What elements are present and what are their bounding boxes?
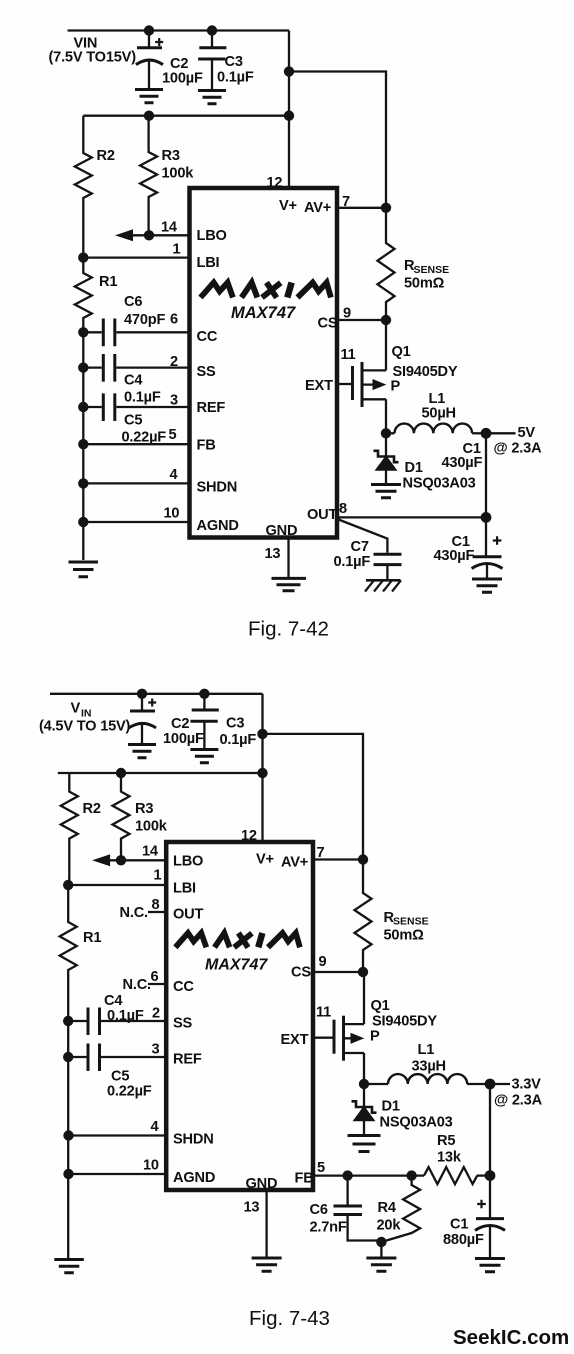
IC U1 MAX747 fig1 box xyxy=(190,188,338,538)
svg-text:AGND: AGND xyxy=(173,1170,215,1186)
svg-text:SI9405DY: SI9405DY xyxy=(372,1014,437,1030)
ground: chassis below C7 xyxy=(365,580,401,591)
node: switch node and output dots fig1 xyxy=(381,428,492,523)
pin 7 AV+ wire fig2 xyxy=(281,845,363,871)
capacitor C6 (470pF) on CC pin 6 fig1 xyxy=(83,294,218,346)
svg-text:0.1µF: 0.1µF xyxy=(124,390,161,406)
svg-text:4: 4 xyxy=(151,1119,160,1135)
svg-text:SHDN: SHDN xyxy=(173,1132,214,1148)
svg-text:13: 13 xyxy=(265,546,281,562)
svg-text:10: 10 xyxy=(143,1158,159,1174)
svg-text:C2: C2 xyxy=(171,716,189,732)
svg-text:LBI: LBI xyxy=(173,881,196,897)
ground: below C1 fig2 xyxy=(475,1259,505,1272)
capacitor C7 (0.1uF) fig1 xyxy=(334,520,402,580)
svg-text:R1: R1 xyxy=(83,930,101,946)
label VIN fig2 xyxy=(39,701,131,735)
ground: below C2 xyxy=(135,90,163,103)
svg-text:430µF: 430µF xyxy=(442,455,483,471)
svg-text:1: 1 xyxy=(173,242,181,258)
wire: junction to ground stub fig2 xyxy=(380,1242,382,1257)
svg-text:C7: C7 xyxy=(351,539,369,555)
svg-text:13: 13 xyxy=(244,1200,260,1216)
svg-text:7: 7 xyxy=(342,194,350,210)
svg-text:1: 1 xyxy=(154,868,162,884)
svg-text:NSQ03A03: NSQ03A03 xyxy=(380,1115,453,1131)
svg-text:8: 8 xyxy=(339,501,347,517)
svg-text:9: 9 xyxy=(343,306,351,322)
svg-text:2.7nF: 2.7nF xyxy=(310,1220,347,1236)
capacitor C3 (0.1uF) fig1 xyxy=(198,31,254,90)
svg-text:C6: C6 xyxy=(310,1202,328,1218)
svg-text:OUT: OUT xyxy=(307,507,337,523)
pin 1 LBI wire fig1 xyxy=(83,242,219,272)
node: left column junction dots fig2 xyxy=(63,855,126,1179)
svg-text:14: 14 xyxy=(142,844,159,860)
resistor RSENSE (50mohm) fig1 xyxy=(378,208,450,320)
svg-text:CC: CC xyxy=(197,329,218,345)
label MAXIM logo fig2 xyxy=(175,933,300,948)
pin 11 EXT wire fig1 xyxy=(305,347,356,394)
svg-text:R2: R2 xyxy=(83,801,101,817)
svg-text:@ 2.3A: @ 2.3A xyxy=(494,1093,543,1109)
wire: Fig.7-42 VIN top rail xyxy=(68,29,290,31)
svg-text:EXT: EXT xyxy=(281,1032,309,1048)
resistor R5 (13k) fig2 xyxy=(424,1133,490,1184)
pin 12 V+ label fig1 xyxy=(267,175,297,214)
ground: below GND pin 13 fig1 xyxy=(272,578,307,590)
pin 4 SHDN wire fig1 xyxy=(83,467,237,496)
pin 5 FB wire fig1 xyxy=(83,427,215,454)
svg-text:V+: V+ xyxy=(279,198,297,214)
wire: second rail to R2/R3 xyxy=(83,115,289,117)
resistor R2 fig1 xyxy=(75,116,115,258)
node: dots AV+/CS fig1 xyxy=(381,203,391,326)
ground: below C2 fig2 xyxy=(128,745,156,758)
svg-text:C1: C1 xyxy=(450,1217,468,1233)
ground: below D1 fig2 xyxy=(348,1136,381,1152)
ground: below D1 xyxy=(371,485,401,498)
node: junction dots top fig2 xyxy=(116,689,268,779)
transistor Q1 SI9405DY (P-FET) fig2 xyxy=(334,972,437,1084)
svg-text:13k: 13k xyxy=(437,1150,462,1166)
svg-text:100µF: 100µF xyxy=(162,71,203,87)
svg-text:9: 9 xyxy=(319,954,327,970)
svg-text:REF: REF xyxy=(173,1052,202,1068)
svg-text:10: 10 xyxy=(164,506,180,522)
svg-text:REF: REF xyxy=(197,400,226,416)
svg-text:Q1: Q1 xyxy=(392,344,411,360)
resistor R4 (20k) fig2 xyxy=(377,1176,421,1242)
svg-text:N.C.: N.C. xyxy=(123,977,152,993)
svg-text:LBO: LBO xyxy=(173,854,203,870)
ground: below C6/R4 fig2 xyxy=(366,1258,396,1271)
ground: below C1 fig1 xyxy=(472,579,502,592)
svg-text:C4: C4 xyxy=(104,993,123,1009)
svg-text:12: 12 xyxy=(241,828,257,844)
label Fig. 7-42 caption xyxy=(248,618,329,641)
svg-text:R3: R3 xyxy=(162,148,180,164)
capacitor C1 430uF (output) fig1 xyxy=(434,517,503,578)
svg-text:5: 5 xyxy=(169,427,177,443)
svg-text:Fig. 7-42: Fig. 7-42 xyxy=(248,618,329,641)
node: FB line junction dots fig2 xyxy=(342,1170,416,1180)
pin 13 GND wire fig2 xyxy=(244,1176,278,1257)
svg-text:11: 11 xyxy=(316,1005,331,1021)
resistor R3 (100k) fig1 xyxy=(140,116,194,236)
capacitor C1 (880uF) fig2 xyxy=(443,1176,505,1258)
node: junction dots top rails fig1 xyxy=(144,25,294,121)
svg-text:50µH: 50µH xyxy=(422,406,456,422)
svg-text:R4: R4 xyxy=(378,1200,397,1216)
svg-text:GND: GND xyxy=(246,1176,278,1192)
svg-text:GND: GND xyxy=(266,523,298,539)
svg-text:SS: SS xyxy=(173,1016,193,1032)
pin 6 CC (N.C.) stub fig2 xyxy=(123,969,195,995)
capacitor C6 (2.7nF) fig2 xyxy=(310,1176,382,1241)
svg-text:V+: V+ xyxy=(256,852,274,868)
svg-text:2: 2 xyxy=(152,1006,160,1022)
svg-text:FB: FB xyxy=(197,438,216,454)
svg-text:50mΩ: 50mΩ xyxy=(384,928,425,944)
svg-text:4: 4 xyxy=(170,467,179,483)
pin 13 GND wire fig1 xyxy=(265,523,298,577)
svg-text:8: 8 xyxy=(152,897,160,913)
svg-text:11: 11 xyxy=(341,347,356,363)
svg-text:LBI: LBI xyxy=(197,255,220,271)
svg-text:P: P xyxy=(391,379,401,395)
svg-text:D1: D1 xyxy=(382,1099,400,1115)
svg-text:CS: CS xyxy=(318,316,338,332)
svg-text:0.22µF: 0.22µF xyxy=(107,1084,152,1100)
svg-text:N.C.: N.C. xyxy=(120,905,149,921)
resistor R1 fig1 xyxy=(75,258,118,560)
diode D1 NSQ03A03 fig1 xyxy=(374,433,476,491)
IC U2 MAX747 fig2 box xyxy=(166,842,313,1190)
svg-text:6: 6 xyxy=(151,969,159,985)
svg-text:C3: C3 xyxy=(225,54,243,70)
svg-text:AV+: AV+ xyxy=(304,200,331,216)
svg-text:0.1µF: 0.1µF xyxy=(217,70,254,86)
ground: left column fig2 xyxy=(54,1260,84,1273)
transistor Q1 SI9405DY (P-FET) fig1 xyxy=(353,320,458,433)
svg-text:R2: R2 xyxy=(97,148,115,164)
svg-text:@ 2.3A: @ 2.3A xyxy=(494,441,543,457)
svg-text:50mΩ: 50mΩ xyxy=(404,276,445,292)
wire: output 3.3V stub fig2 xyxy=(490,1077,543,1109)
wire: branch from rail to AV+ column fig2 xyxy=(263,734,364,860)
pin 4 SHDN wire fig2 xyxy=(69,1119,214,1148)
svg-text:FB: FB xyxy=(295,1171,314,1187)
label MAXIM logo fig1 xyxy=(201,283,331,298)
svg-text:OUT: OUT xyxy=(173,907,203,923)
node: switch node and output dots fig2 xyxy=(359,1079,496,1181)
svg-text:R3: R3 xyxy=(135,801,153,817)
svg-text:430µF: 430µF xyxy=(434,548,475,564)
pin 10 AGND wire fig1 xyxy=(83,506,238,535)
capacitor C2 (100uF) fig2 xyxy=(129,694,204,747)
svg-text:5: 5 xyxy=(317,1160,325,1176)
svg-text:V: V xyxy=(71,701,81,717)
ground: below C3 xyxy=(198,91,226,104)
svg-text:100k: 100k xyxy=(135,819,168,835)
pin 10 AGND wire fig2 xyxy=(69,1158,216,1187)
ground: left column fig1 xyxy=(69,562,99,577)
label C1 430uF (upper) fig1 xyxy=(442,441,483,471)
resistor R1 fig2 xyxy=(60,885,102,1258)
label MAX747 fig2 xyxy=(205,957,268,974)
svg-text:2: 2 xyxy=(170,354,178,370)
resistor R2 fig2 xyxy=(61,773,101,885)
svg-text:C5: C5 xyxy=(124,413,142,429)
svg-text:C4: C4 xyxy=(124,373,143,389)
svg-text:SeekIC.com: SeekIC.com xyxy=(453,1326,569,1349)
svg-text:NSQ03A03: NSQ03A03 xyxy=(403,476,476,492)
svg-text:3.3V: 3.3V xyxy=(512,1077,542,1093)
svg-text:5V: 5V xyxy=(518,425,536,441)
capacitor C2 (100uF) fig1 xyxy=(136,31,203,89)
ground: below GND pin 13 fig2 xyxy=(252,1258,282,1271)
svg-text:AV+: AV+ xyxy=(281,855,308,871)
wire: branch from rail to AV+ column xyxy=(289,72,386,208)
wire: top rail drop to V+ pin 12 xyxy=(288,31,290,189)
svg-text:CS: CS xyxy=(291,965,311,981)
svg-text:SS: SS xyxy=(197,364,217,380)
ground: below C3 fig2 xyxy=(190,750,218,763)
capacitor C5 (0.22uF) on REF pin 3 fig1 xyxy=(83,393,225,446)
svg-text:SHDN: SHDN xyxy=(197,480,238,496)
wire: output 5V stub fig1 xyxy=(486,425,542,457)
svg-text:0.1µF: 0.1µF xyxy=(334,554,371,570)
svg-text:6: 6 xyxy=(170,312,178,328)
svg-text:(7.5V TO15V): (7.5V TO15V) xyxy=(49,50,137,66)
label MAX747 fig1 xyxy=(231,304,296,322)
svg-text:33µH: 33µH xyxy=(412,1059,446,1075)
svg-text:MAX747: MAX747 xyxy=(205,957,268,974)
svg-text:L1: L1 xyxy=(418,1042,435,1058)
wire: rail drop to V+ pin 12 fig2 xyxy=(261,694,263,842)
label SeekIC.com watermark xyxy=(453,1326,569,1349)
capacitor C4 (0.1uF) on SS pin 2 fig1 xyxy=(83,354,216,406)
svg-text:12: 12 xyxy=(267,175,283,191)
svg-text:CC: CC xyxy=(173,979,194,995)
pin 14 LBO wire + arrow fig1 xyxy=(117,220,227,245)
resistor R3 (100k) fig2 xyxy=(113,773,168,860)
svg-text:AGND: AGND xyxy=(197,518,239,534)
pin 9 CS wire fig2 xyxy=(291,954,363,981)
inductor L1 (50uH) fig1 xyxy=(386,391,486,433)
svg-text:D1: D1 xyxy=(405,460,423,476)
label VIN fig1 xyxy=(49,36,137,66)
svg-text:20k: 20k xyxy=(377,1218,402,1234)
svg-text:SENSE: SENSE xyxy=(414,264,450,276)
pin 8 OUT (N.C.) stub fig2 xyxy=(120,897,204,923)
svg-text:SI9405DY: SI9405DY xyxy=(393,364,458,380)
svg-text:C6: C6 xyxy=(124,294,142,310)
svg-text:C5: C5 xyxy=(111,1069,129,1085)
svg-text:880µF: 880µF xyxy=(443,1232,484,1248)
resistor RSENSE (50mohm) fig2 xyxy=(355,860,429,973)
label Fig. 7-43 caption xyxy=(249,1307,330,1330)
wire: output node down to FB line fig2 xyxy=(489,1084,491,1176)
svg-text:P: P xyxy=(370,1029,380,1045)
svg-text:MAX747: MAX747 xyxy=(231,304,296,322)
inductor L1 (33uH) fig2 xyxy=(364,1042,490,1084)
pin 14 LBO wire + arrow fig2 xyxy=(94,844,204,870)
wire: Fig.7-43 VIN top rail xyxy=(50,693,263,695)
svg-text:SENSE: SENSE xyxy=(393,916,429,928)
node: C6/R4 ground junction dot fig2 xyxy=(376,1237,386,1247)
pin 8 OUT wire fig1 xyxy=(307,501,486,523)
pin 12 V+ label fig2 xyxy=(241,828,274,868)
svg-text:100µF: 100µF xyxy=(163,731,204,747)
diode D1 NSQ03A03 fig2 xyxy=(352,1084,453,1134)
svg-text:R1: R1 xyxy=(99,274,117,290)
pin 5 FB wire fig2 xyxy=(295,1160,425,1187)
node: left column junction dots fig1 xyxy=(78,230,154,527)
svg-text:(4.5V TO 15V): (4.5V TO 15V) xyxy=(39,719,131,735)
svg-text:Fig. 7-43: Fig. 7-43 xyxy=(249,1307,330,1330)
svg-text:EXT: EXT xyxy=(305,378,333,394)
svg-text:470pF: 470pF xyxy=(124,312,165,328)
capacitor C3 (0.1uF) fig2 xyxy=(191,694,257,749)
svg-text:7: 7 xyxy=(317,845,325,861)
svg-text:C3: C3 xyxy=(226,716,244,732)
svg-text:100k: 100k xyxy=(162,166,195,182)
svg-text:R5: R5 xyxy=(437,1133,455,1149)
svg-text:Q1: Q1 xyxy=(371,998,390,1014)
svg-text:0.1µF: 0.1µF xyxy=(107,1008,144,1024)
node: dots AV+/CS fig2 xyxy=(358,854,368,977)
capacitor C4 (0.1uF) on SS pin 2 fig2 xyxy=(68,993,192,1035)
wire: second rail fig2 xyxy=(58,772,263,774)
svg-text:3: 3 xyxy=(170,393,178,409)
pin 9 CS wire fig1 xyxy=(318,306,387,332)
pin 11 EXT wire fig2 xyxy=(281,1005,335,1049)
svg-text:3: 3 xyxy=(152,1042,160,1058)
pin 1 LBI wire fig2 xyxy=(68,868,196,897)
svg-text:0.1µF: 0.1µF xyxy=(220,732,257,748)
wire: output node down to OUT line fig1 xyxy=(485,433,487,517)
svg-text:LBO: LBO xyxy=(197,228,227,244)
svg-text:14: 14 xyxy=(161,220,178,236)
capacitor C5 (0.22uF) on REF pin 3 fig2 xyxy=(68,1042,202,1100)
pin 7 AV+ wire fig1 xyxy=(304,194,386,216)
